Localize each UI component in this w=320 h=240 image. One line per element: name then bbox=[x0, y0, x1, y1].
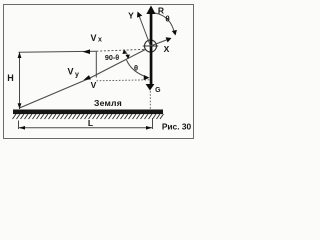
svg-text:θ: θ bbox=[165, 15, 169, 24]
angle arc theta (lower, between sight line and G) bbox=[127, 60, 149, 78]
outer frame bbox=[4, 5, 194, 139]
ground bar (Земля) bbox=[13, 110, 163, 115]
svg-text:y: y bbox=[75, 72, 79, 79]
svg-text:H: H bbox=[7, 73, 14, 83]
arc theta top arrowhead bbox=[172, 30, 177, 36]
angle arc 90-theta (between dotted line and sight line) bbox=[124, 50, 128, 59]
sight line upper segment (V point to ball) bbox=[89, 50, 145, 79]
svg-text:Y: Y bbox=[128, 11, 134, 21]
sight line lower segment (ground to V point) bbox=[20, 79, 90, 109]
force G arrowhead bbox=[146, 84, 155, 91]
axis Y bbox=[138, 13, 150, 46]
arc 90-theta top arrowhead bbox=[122, 49, 126, 54]
svg-text:Рис. 30: Рис. 30 bbox=[162, 122, 192, 132]
L dimension extension tick right bbox=[152, 118, 154, 129]
svg-text:x: x bbox=[98, 37, 102, 44]
H top arrowhead bbox=[18, 52, 22, 58]
H bottom arrowhead bbox=[18, 103, 22, 109]
axis Y arrowhead bbox=[137, 12, 142, 18]
svg-text:Земля: Земля bbox=[94, 98, 122, 108]
L dim right arrowhead bbox=[146, 126, 152, 130]
svg-text:X: X bbox=[164, 44, 170, 54]
vector V arrowhead bbox=[84, 75, 91, 80]
ground hatching bbox=[13, 114, 164, 119]
top reference line (dotted part to ball) bbox=[96, 49, 145, 51]
svg-text:90-θ: 90-θ bbox=[105, 53, 119, 62]
vector Vx arrowhead bbox=[83, 49, 91, 54]
angle arc theta (top, between R and X) bbox=[155, 13, 175, 34]
axis X arrowhead bbox=[166, 37, 172, 42]
arc 90-theta bottom arrowhead bbox=[126, 55, 130, 60]
svg-text:V: V bbox=[91, 80, 97, 90]
vector Vy line bbox=[95, 52, 97, 78]
L dimension extension tick left bbox=[18, 121, 20, 130]
dotted construction line horizontal bbox=[97, 80, 151, 81]
arc theta lower arrowhead bbox=[144, 75, 150, 80]
dotted construction line vertical bbox=[149, 91, 151, 110]
L dim left arrowhead bbox=[19, 126, 25, 130]
svg-text:L: L bbox=[88, 118, 93, 128]
force R arrowhead bbox=[146, 6, 155, 15]
ball (circle with cross) bbox=[145, 40, 157, 52]
L dimension line bbox=[19, 127, 153, 129]
svg-text:θ: θ bbox=[134, 64, 138, 73]
svg-text:G: G bbox=[155, 87, 161, 94]
axis X bbox=[151, 39, 171, 46]
H dimension line bbox=[19, 53, 21, 110]
svg-text:V: V bbox=[91, 33, 97, 43]
force R shaft + G shaft (thick vertical bar) bbox=[150, 14, 153, 85]
top reference line (solid part) bbox=[19, 51, 97, 52]
svg-text:V: V bbox=[68, 67, 74, 77]
